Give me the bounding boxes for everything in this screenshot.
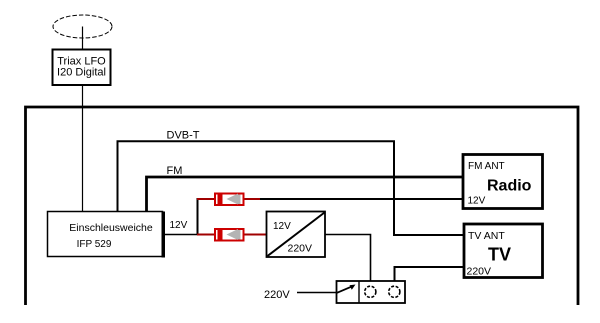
svg-text:TV: TV (488, 245, 511, 265)
svg-text:12V: 12V (170, 220, 188, 231)
svg-text:220V: 220V (264, 289, 290, 301)
svg-text:220V: 220V (467, 266, 492, 278)
svg-text:I20 Digital: I20 Digital (57, 67, 106, 79)
svg-text:Einschleusweiche: Einschleusweiche (69, 222, 153, 234)
svg-text:12V: 12V (273, 221, 291, 232)
svg-text:IFP 529: IFP 529 (77, 239, 112, 250)
svg-text:DVB-T: DVB-T (167, 130, 200, 142)
svg-text:FM: FM (167, 165, 183, 177)
svg-text:12V: 12V (468, 196, 486, 207)
svg-text:FM ANT: FM ANT (468, 161, 505, 172)
svg-text:220V: 220V (288, 243, 313, 255)
svg-text:Radio: Radio (487, 178, 532, 195)
svg-text:TV ANT: TV ANT (468, 230, 505, 242)
